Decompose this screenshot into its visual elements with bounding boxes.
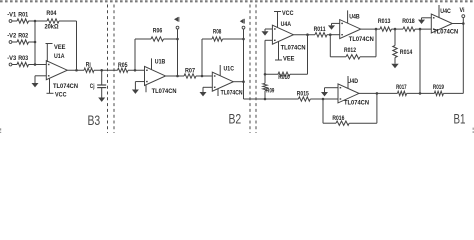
resistor R016 feedback U4D bbox=[323, 93, 377, 125]
section separator B2/B1 (dashed pair) bbox=[250, 5, 256, 134]
ground at U4B inverting input bbox=[328, 23, 340, 29]
wire R018 to U4C non-inverting input bbox=[415, 28, 431, 30]
junction R014 node bbox=[394, 28, 397, 31]
junction R016 top node bbox=[376, 92, 379, 95]
junction U4B input node bbox=[329, 33, 332, 36]
wire feedback riser U1B bbox=[134, 39, 136, 70]
wire R017 to R019 bbox=[407, 92, 435, 94]
wire node A vertical bbox=[34, 21, 36, 65]
wire R04 to output node bbox=[59, 21, 77, 70]
wire port column 2 lower bbox=[243, 39, 245, 82]
svg-text:TL074CN: TL074CN bbox=[221, 90, 243, 96]
wire port column 2 upper bbox=[243, 29, 245, 39]
resistor R03 bbox=[12, 56, 29, 67]
wire R07 to U1C inverting input bbox=[196, 75, 212, 77]
junction R012 top node bbox=[375, 28, 378, 31]
label TL074CN U1B bbox=[152, 89, 177, 95]
svg-text:R018: R018 bbox=[402, 19, 415, 25]
wire U4B output bbox=[361, 28, 380, 30]
svg-text:R06: R06 bbox=[153, 29, 163, 35]
svg-text:B3: B3 bbox=[88, 113, 101, 128]
op-amp U4D bbox=[338, 79, 359, 103]
svg-text:-V3: -V3 bbox=[7, 56, 17, 62]
svg-text:R013: R013 bbox=[378, 19, 391, 25]
svg-text:U1B: U1B bbox=[155, 59, 166, 65]
output port Vi bbox=[460, 8, 465, 24]
junction node A row3 bbox=[34, 63, 37, 66]
resistor R019 bbox=[433, 85, 445, 96]
junction Cj node bbox=[100, 69, 103, 72]
wire R05 to U1B inverting input bbox=[128, 69, 145, 71]
svg-text:R010: R010 bbox=[278, 75, 290, 81]
junction node A row2 bbox=[34, 41, 37, 44]
svg-text:U1A: U1A bbox=[54, 54, 65, 60]
section label B3 bbox=[88, 113, 101, 128]
junction R09 bottom node bbox=[264, 98, 267, 101]
wire R011 to U4B non-inverting input bbox=[327, 34, 340, 36]
resistor R017 bbox=[396, 85, 407, 96]
resistor R09 bbox=[263, 74, 275, 99]
input port -V3 bbox=[7, 56, 17, 66]
power stub below U1C bbox=[217, 89, 219, 96]
svg-text:-V2: -V2 bbox=[7, 33, 17, 39]
resistor R011 bbox=[314, 27, 327, 37]
svg-text:U4B: U4B bbox=[349, 14, 360, 20]
svg-text:-V1: -V1 bbox=[7, 12, 17, 18]
svg-text:Vi: Vi bbox=[460, 8, 465, 14]
port circle 1 bbox=[176, 26, 179, 29]
svg-text:R017: R017 bbox=[396, 85, 407, 91]
svg-text:R011: R011 bbox=[314, 27, 327, 33]
svg-text:R07: R07 bbox=[185, 69, 196, 75]
ground at U1C non-inverting input bbox=[200, 87, 213, 96]
svg-text:Rj: Rj bbox=[86, 62, 91, 68]
svg-text:20kΩ: 20kΩ bbox=[45, 25, 59, 31]
wire R013 to R018 bbox=[391, 28, 403, 30]
label TL074CN U1C bbox=[221, 90, 243, 96]
ground at U1B non-inverting input bbox=[132, 82, 145, 94]
svg-text:R04: R04 bbox=[46, 11, 57, 17]
svg-text:B1: B1 bbox=[454, 112, 466, 127]
wire port column 1 bbox=[177, 29, 179, 76]
svg-text:TL074CN: TL074CN bbox=[349, 37, 374, 43]
resistor R015 bbox=[297, 92, 310, 102]
value label 20kohm bbox=[45, 25, 59, 31]
wire to R08 bbox=[202, 38, 212, 40]
svg-text:R016: R016 bbox=[332, 116, 345, 122]
section label B1 bbox=[454, 112, 466, 127]
port circle 2 bbox=[242, 26, 245, 29]
junction U4C input node bbox=[419, 28, 422, 31]
wire R06 to port column bbox=[164, 38, 178, 40]
power stub below U1B bbox=[145, 85, 147, 93]
wire riser U4C input to R017 node bbox=[419, 29, 421, 93]
power stub above U4C bbox=[438, 5, 440, 18]
resistor R07 bbox=[184, 69, 196, 79]
wire U4C output bbox=[452, 23, 463, 25]
resistor R08 feedback U1C bbox=[212, 29, 223, 41]
svg-text:TL074CN: TL074CN bbox=[281, 45, 306, 51]
resistor R01 bbox=[12, 12, 29, 23]
wire U1A output bbox=[67, 69, 84, 71]
junction U1B output node bbox=[176, 75, 179, 78]
svg-text:R09: R09 bbox=[266, 88, 274, 94]
ground at U4C inverting input bbox=[418, 18, 431, 24]
resistor R05 bbox=[118, 63, 129, 72]
svg-text:TL074CN: TL074CN bbox=[53, 84, 78, 90]
svg-text:VEE: VEE bbox=[54, 45, 66, 51]
junction U1B input node bbox=[134, 69, 137, 72]
junction U1A output node bbox=[75, 69, 78, 72]
VCC power pin U1A bbox=[47, 79, 68, 99]
op-amp U1B bbox=[145, 59, 166, 85]
wire bottom row to U4D bbox=[265, 98, 338, 100]
junction R06 port node bbox=[176, 38, 179, 41]
wire Vi column down to R019 bbox=[462, 24, 464, 94]
port flag 1 bbox=[174, 17, 179, 22]
svg-text:U1C: U1C bbox=[224, 66, 235, 72]
svg-text:TL074CN: TL074CN bbox=[344, 101, 369, 107]
power stub above U4D bbox=[347, 76, 349, 88]
label TL074CN U4B bbox=[349, 37, 374, 43]
svg-text:B2: B2 bbox=[229, 112, 242, 127]
resistor Rj bbox=[84, 62, 94, 72]
resistor R013 bbox=[378, 19, 392, 31]
svg-text:R014: R014 bbox=[400, 50, 413, 56]
wire R08 to port column bbox=[223, 38, 244, 40]
svg-text:R012: R012 bbox=[344, 48, 357, 54]
svg-text:R02: R02 bbox=[18, 33, 29, 39]
section label B2 bbox=[229, 112, 242, 127]
svg-text:U4C: U4C bbox=[440, 9, 451, 15]
svg-text:R019: R019 bbox=[433, 85, 445, 91]
label TL074CN U4D bbox=[344, 101, 369, 107]
top border dashed line bbox=[0, 0, 474, 2]
VCC power pin U4A bbox=[274, 11, 294, 27]
junction U4A output node bbox=[306, 33, 309, 36]
wire Rj to Cj node bbox=[94, 69, 118, 71]
svg-text:R08: R08 bbox=[213, 29, 222, 35]
bottom-right border mark bbox=[473, 128, 474, 133]
junction U1C output node bbox=[242, 80, 245, 83]
svg-text:R03: R03 bbox=[18, 56, 29, 62]
resistor R012 feedback U4B bbox=[330, 29, 376, 59]
op-amp U1C bbox=[212, 66, 234, 91]
wire to R010 bbox=[265, 73, 278, 75]
resistor R04 feedback bbox=[46, 11, 59, 23]
resistor R014 bbox=[393, 29, 413, 64]
wire U1C output bbox=[233, 81, 243, 83]
junction R010 node bbox=[264, 73, 267, 76]
wire U4A non-inverting input bbox=[265, 40, 272, 74]
svg-text:Cj: Cj bbox=[90, 84, 95, 90]
power stub above U1C bbox=[219, 65, 221, 76]
svg-text:TL074CN: TL074CN bbox=[152, 89, 177, 95]
ground below Cj bbox=[98, 88, 105, 102]
VEE power pin U1A bbox=[46, 44, 66, 63]
ground at U4D inverting input bbox=[321, 88, 338, 97]
label TL074CN U4A bbox=[281, 45, 306, 51]
svg-text:U4A: U4A bbox=[281, 22, 292, 28]
capacitor Cj bbox=[90, 70, 106, 90]
svg-text:VEE: VEE bbox=[283, 56, 295, 62]
svg-text:U4D: U4D bbox=[348, 79, 359, 85]
op-amp U4A bbox=[272, 22, 293, 44]
junction R08 port node bbox=[242, 38, 245, 41]
svg-text:VCC: VCC bbox=[282, 11, 294, 17]
wire U4D output bbox=[359, 92, 397, 94]
ground at U1A non-inverting input bbox=[32, 76, 47, 88]
wire R03 to U1A inverting input bbox=[29, 64, 47, 66]
wire R02 to node bbox=[29, 41, 36, 43]
svg-text:VCC: VCC bbox=[55, 93, 67, 99]
input port -V2 bbox=[7, 33, 17, 43]
wire R010 to U4A output bbox=[290, 35, 308, 75]
wire U1C output down to B1 row bbox=[244, 82, 266, 99]
ground at U4A inverting input bbox=[262, 29, 273, 36]
op-amp U4B bbox=[340, 14, 361, 38]
junction node A row1 bbox=[34, 20, 37, 23]
junction Vi node bbox=[462, 22, 465, 25]
svg-text:R015: R015 bbox=[297, 92, 310, 98]
port flag 2 bbox=[240, 19, 245, 24]
input port -V1 bbox=[7, 12, 17, 22]
wire feedback riser U1C bbox=[201, 39, 203, 76]
power stub above U4B bbox=[347, 10, 349, 23]
wire R019 to Vi column bbox=[443, 92, 463, 94]
wire to R06 bbox=[135, 38, 151, 40]
svg-text:TL074CN: TL074CN bbox=[433, 30, 458, 36]
label TL074CN U4C bbox=[433, 30, 458, 36]
junction R07 node bbox=[201, 75, 204, 78]
label TL074CN U1A bbox=[53, 84, 78, 90]
resistor R02 bbox=[12, 33, 29, 44]
wire U4A output bbox=[293, 34, 315, 36]
resistor R06 feedback U1B bbox=[151, 29, 163, 42]
bottom-left border mark bbox=[0, 128, 1, 133]
op-amp U1A bbox=[46, 54, 67, 80]
op-amp U4C bbox=[431, 9, 452, 33]
power stub above U1B bbox=[151, 58, 153, 69]
svg-text:R01: R01 bbox=[18, 12, 29, 18]
wire U1B output bbox=[166, 75, 185, 77]
wire R01 to node bbox=[29, 20, 48, 22]
VEE power pin U4A bbox=[275, 41, 295, 62]
ground below R014 bbox=[391, 64, 398, 69]
section separator B3/B2 (dashed pair) bbox=[108, 5, 115, 134]
svg-text:R05: R05 bbox=[118, 63, 128, 69]
resistor R010 feedback U4A bbox=[278, 72, 290, 81]
resistor R018 bbox=[402, 19, 415, 31]
junction R016 bottom node bbox=[322, 98, 325, 101]
junction R017 R019 node bbox=[419, 92, 422, 95]
